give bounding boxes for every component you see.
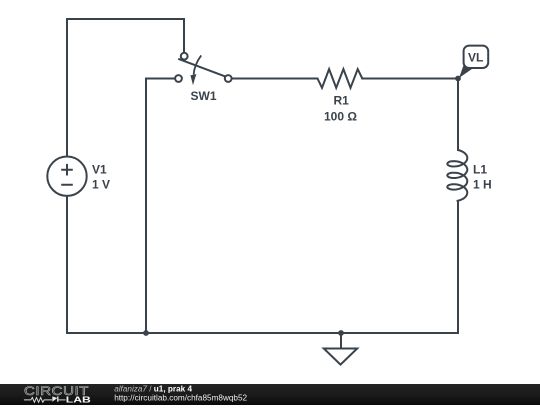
- svg-text:VL: VL: [468, 51, 483, 65]
- svg-text:1 H: 1 H: [473, 178, 492, 192]
- svg-text:http://circuitlab.com/chfa85m8: http://circuitlab.com/chfa85m8wqb52: [114, 393, 247, 402]
- CircuitLab logo: [24, 384, 91, 405]
- svg-text:alfaniza7 / u1, prak 4: alfaniza7 / u1, prak 4: [114, 384, 192, 393]
- wire bottom horizontal: [67, 332, 458, 334]
- inductor L1: [447, 150, 467, 201]
- svg-text:L1: L1: [473, 163, 487, 177]
- wire left vertical upper: [66, 19, 68, 157]
- voltage source V1: [47, 157, 86, 196]
- svg-text:R1: R1: [334, 94, 350, 108]
- wire left vertical lower: [66, 196, 68, 333]
- junction middle bottom: [143, 330, 149, 336]
- resistor R1: [318, 69, 363, 88]
- wire top horizontal: [67, 18, 184, 20]
- wire switch left lead: [146, 78, 175, 80]
- wire resistor to node: [362, 78, 458, 80]
- svg-text:100 Ω: 100 Ω: [324, 110, 357, 124]
- switch SW1: [175, 53, 232, 85]
- wire right vertical upper: [457, 79, 459, 151]
- node VL flag: [459, 46, 488, 78]
- wire switch top lead: [183, 19, 185, 53]
- svg-text:SW1: SW1: [191, 89, 217, 103]
- ground: [324, 333, 357, 365]
- junction node at VL: [455, 76, 461, 82]
- junction ground node: [338, 330, 344, 336]
- svg-text:LAB: LAB: [66, 395, 92, 405]
- svg-text:1 V: 1 V: [92, 178, 110, 192]
- wire middle vertical: [145, 79, 147, 334]
- svg-text:V1: V1: [92, 163, 107, 177]
- wire right vertical lower: [457, 201, 459, 333]
- footer bar: [0, 384, 540, 405]
- wire switch right to resistor: [232, 78, 318, 80]
